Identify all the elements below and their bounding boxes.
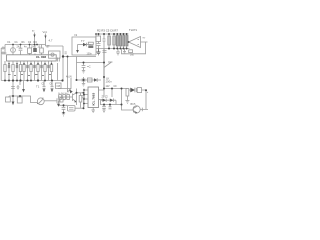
svg-text:Vcc: Vcc <box>43 30 48 34</box>
svg-text:2A: 2A <box>17 45 20 48</box>
svg-text:4x1N: 4x1N <box>66 76 72 79</box>
svg-text:1M: 1M <box>31 45 34 48</box>
svg-text:100n: 100n <box>87 53 93 56</box>
svg-text:1k 2k2 4k7: 1k 2k2 4k7 <box>58 93 69 95</box>
svg-text:12V: 12V <box>106 86 111 88</box>
svg-text:100n: 100n <box>106 80 113 84</box>
svg-text:C8: C8 <box>57 84 61 88</box>
svg-text:BC5: BC5 <box>131 103 136 106</box>
svg-text:TL071: TL071 <box>129 28 137 32</box>
svg-text:4,7: 4,7 <box>49 39 53 43</box>
svg-text:T1: T1 <box>36 85 40 89</box>
svg-text:R2 R3 C5 C6 R7: R2 R3 C5 C6 R7 <box>97 29 118 33</box>
svg-text:Tr: Tr <box>32 29 35 33</box>
svg-text:TY: TY <box>81 39 85 43</box>
svg-text:1k0: 1k0 <box>130 54 135 57</box>
svg-text:=C: =C <box>87 65 91 69</box>
svg-text:CL 008: CL 008 <box>36 55 46 59</box>
svg-text:Z1 Z2: Z1 Z2 <box>102 96 109 99</box>
svg-text:ICL 7663: ICL 7663 <box>92 93 96 106</box>
